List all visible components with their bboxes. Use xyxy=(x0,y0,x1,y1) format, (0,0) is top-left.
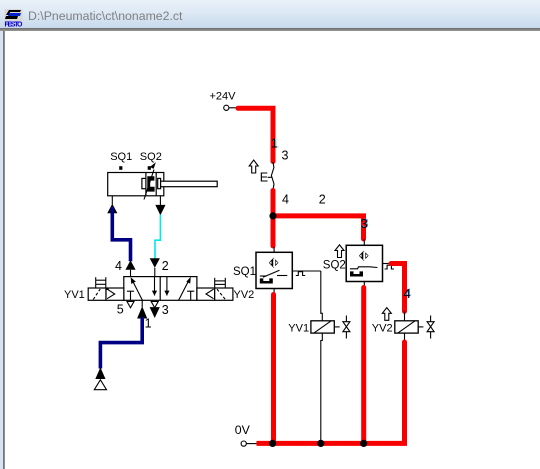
SQ1 pulse symbol xyxy=(296,272,305,276)
YV1 link dash xyxy=(335,326,340,328)
SQ1 sensor diamond xyxy=(269,258,279,268)
YV1 bottom wire to bus xyxy=(321,333,323,444)
solenoid YV1 box xyxy=(88,288,106,300)
pneumatic line cylinder-right to valve port 2 (exhaust) xyxy=(150,196,166,277)
svg-text:3: 3 xyxy=(361,217,368,231)
port 5 exhaust triangle xyxy=(127,302,134,308)
FESTO application icon xyxy=(4,9,30,37)
valve right chamber: 1 to 2 path xyxy=(179,277,191,301)
wire (SQ2 down to 0V bus) xyxy=(361,288,366,444)
wire label 3 xyxy=(361,217,369,232)
svg-text:SQ2: SQ2 xyxy=(140,151,162,163)
SQ1 output stub xyxy=(292,270,321,272)
proximity switch SQ2 box xyxy=(346,245,382,281)
wire (switch E to junction) xyxy=(271,191,276,216)
sensor tick SQ1 xyxy=(119,166,122,170)
wire label 4 xyxy=(404,286,412,301)
svg-text:SQ1: SQ1 xyxy=(233,266,256,278)
svg-text:4: 4 xyxy=(115,259,122,273)
wire (SQ1 down to 0V bus) xyxy=(271,295,276,444)
svg-text:SQ1: SQ1 xyxy=(110,151,132,163)
SQ1 contact (open) xyxy=(260,270,288,277)
junction dot xyxy=(269,212,276,219)
wire (YV2 down to 0V bus corner) xyxy=(402,342,407,443)
SQ2 bottom terminal xyxy=(363,282,365,287)
solenoid YV2 box xyxy=(215,288,233,300)
svg-text:E: E xyxy=(260,171,268,185)
supply line to valve port 1 (pressurized) xyxy=(100,317,142,369)
wire label 1 xyxy=(271,136,280,150)
cylinder body xyxy=(108,173,164,196)
switch E contact xyxy=(271,162,274,190)
sensor actuation arrow through piston xyxy=(144,162,156,199)
manual actuation arrow (SQ2) xyxy=(335,245,344,258)
SQ1 bottom terminal xyxy=(273,289,275,294)
switch E actuator dash xyxy=(268,176,272,178)
relay coil YV1 connection from SQ1 xyxy=(321,271,323,321)
cylinder right cushion seal xyxy=(158,178,161,188)
valve left chamber: 2 to 3 path xyxy=(152,277,157,296)
svg-text:3: 3 xyxy=(162,303,169,317)
port 1 stub xyxy=(141,300,143,307)
wire (to SQ2 top) stub xyxy=(363,239,365,245)
svg-text:4: 4 xyxy=(282,193,289,207)
valve right chamber: port 3 blocked xyxy=(187,291,194,300)
valve right chamber: 4 to 5 path xyxy=(164,277,169,296)
SQ2 sensor diamond xyxy=(359,251,369,261)
svg-text:YV1: YV1 xyxy=(288,323,309,335)
cylinder piston rod xyxy=(161,181,218,187)
wire 2 (junction to SQ2 branch) xyxy=(273,216,364,239)
YV1 valve-link symbol xyxy=(343,316,350,339)
manual override ladder right xyxy=(215,278,226,288)
SQ2 contact (closed) xyxy=(350,267,378,269)
svg-text:YV1: YV1 xyxy=(64,289,85,301)
valve left chamber: 1 to 4 path xyxy=(131,277,143,300)
cylinder left cushion seal xyxy=(142,178,146,188)
svg-text:0V: 0V xyxy=(235,423,251,437)
svg-text:5: 5 xyxy=(117,302,124,316)
air source flow arrow xyxy=(95,367,105,379)
valve left chamber: port 5 blocked xyxy=(127,291,134,300)
port 3 exhaust triangle xyxy=(151,302,158,308)
SQ2 output stub xyxy=(383,263,393,265)
junction dot (SQ2 branch) xyxy=(360,440,367,447)
svg-text:1: 1 xyxy=(271,137,278,151)
pilot box right xyxy=(197,288,215,300)
sensor tick SQ2 xyxy=(148,166,151,170)
svg-text:YV2: YV2 xyxy=(234,289,255,301)
junction dot (YV1 branch) xyxy=(317,440,324,447)
junction dot (SQ1 branch) xyxy=(269,440,276,447)
pilot box left xyxy=(106,288,124,300)
proximity switch SQ1 box xyxy=(256,247,292,289)
svg-text:SQ2: SQ2 xyxy=(323,259,346,271)
svg-text:4: 4 xyxy=(404,287,411,301)
wire (junction down to SQ1) xyxy=(271,216,276,246)
port 1 flow arrow xyxy=(137,306,147,318)
wire 1 (+24V to switch E) xyxy=(238,108,273,161)
wire 4 (SQ2 to YV2) xyxy=(391,264,405,312)
pneumatic line cylinder-left to valve port 4 (pressurized) xyxy=(107,196,135,277)
YV2 bottom stub xyxy=(404,333,406,341)
compressed air source xyxy=(94,380,106,390)
manual actuation arrow (YV2) xyxy=(382,308,391,321)
svg-text:1: 1 xyxy=(145,317,152,331)
svg-text:+24V: +24V xyxy=(210,91,237,103)
SQ2 pulse symbol xyxy=(385,265,394,269)
SQ1 base bracket xyxy=(260,278,273,283)
SQ2 base bracket xyxy=(350,271,363,276)
svg-text:YV2: YV2 xyxy=(372,323,393,335)
svg-text:3: 3 xyxy=(282,148,289,162)
cylinder piston xyxy=(146,173,156,196)
valve V1 body xyxy=(124,277,197,301)
0V bus wire xyxy=(257,441,408,446)
port 3 flow arrow xyxy=(150,307,160,318)
relay coil YV1 xyxy=(311,321,334,333)
+24V terminal xyxy=(224,105,238,110)
manual actuation arrow (switch E) xyxy=(249,160,258,173)
svg-text:2: 2 xyxy=(162,259,169,273)
YV2 valve-link symbol xyxy=(427,316,434,339)
relay coil YV2 xyxy=(395,321,418,333)
0V terminal xyxy=(241,441,256,446)
YV2 link dash xyxy=(419,326,424,328)
manual override ladder left xyxy=(96,277,106,288)
svg-text:2: 2 xyxy=(319,192,326,206)
YV2 top stub xyxy=(404,311,406,321)
